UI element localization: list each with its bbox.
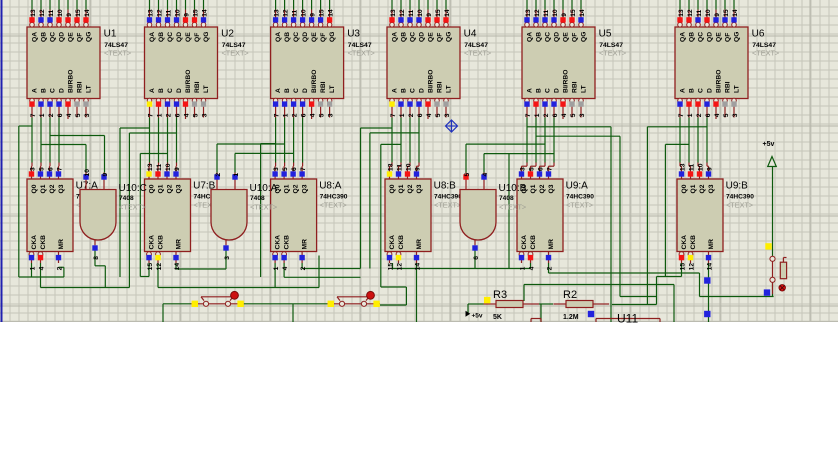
svg-text:5: 5 <box>570 113 577 117</box>
svg-text:6: 6 <box>47 167 54 171</box>
svg-text:C: C <box>697 88 704 93</box>
svg-text:7408: 7408 <box>499 195 514 202</box>
svg-text:QC: QC <box>293 32 300 42</box>
svg-text:14: 14 <box>201 9 208 17</box>
wire net Q1 digit 2 <box>158 118 160 163</box>
wire segment display bus U4 pin <box>400 0 402 10</box>
svg-text:3: 3 <box>84 113 91 117</box>
wire segment display bus U6 pin <box>715 0 717 10</box>
wire +5v to R3 <box>468 303 484 305</box>
svg-text:10: 10 <box>697 163 704 171</box>
svg-text:9: 9 <box>561 13 568 17</box>
svg-text:B: B <box>535 88 542 93</box>
svg-text:U8:A: U8:A <box>319 181 342 192</box>
svg-text:14: 14 <box>414 263 421 271</box>
wire segment display bus U1 pin <box>58 0 60 10</box>
node button3 bottom state square (blue) <box>764 289 770 295</box>
svg-text:QB: QB <box>284 32 291 42</box>
svg-text:U6: U6 <box>752 28 765 39</box>
wire net Q0 digit 4 <box>391 118 393 163</box>
svg-text:QD: QD <box>418 32 425 42</box>
svg-text:2: 2 <box>56 266 63 270</box>
wire R3-R2 link <box>539 303 553 305</box>
svg-text:BI/RBO: BI/RBO <box>311 70 318 93</box>
svg-text:QG: QG <box>580 32 587 42</box>
svg-text:12: 12 <box>156 9 163 17</box>
svg-text:1: 1 <box>534 113 541 117</box>
svg-text:3: 3 <box>579 113 586 117</box>
svg-text:4: 4 <box>282 266 289 270</box>
svg-text:BI/RBO: BI/RBO <box>185 70 192 93</box>
wire segment display bus U4 pin <box>436 0 438 10</box>
svg-text:11: 11 <box>408 9 415 16</box>
svg-text:<TEXT>: <TEXT> <box>250 203 277 212</box>
wire MR U8:B down <box>416 269 418 323</box>
svg-text:9: 9 <box>310 13 317 17</box>
wire bottom net digit4 <box>393 268 531 270</box>
svg-text:LT: LT <box>733 84 740 93</box>
svg-text:QC: QC <box>544 32 551 42</box>
svg-text:13: 13 <box>30 9 37 17</box>
svg-text:10: 10 <box>301 9 308 17</box>
svg-text:D: D <box>58 88 65 93</box>
svg-text:LT: LT <box>85 84 92 93</box>
svg-text:QD: QD <box>302 32 309 42</box>
wire net Q1 digit 6 <box>688 118 690 163</box>
svg-text:3: 3 <box>444 113 451 117</box>
svg-text:11: 11 <box>396 164 403 171</box>
wire segment display bus U2 pin <box>203 0 205 10</box>
svg-text:RBI: RBI <box>724 81 731 93</box>
wire segment display bus U2 pin <box>158 0 160 10</box>
svg-text:10: 10 <box>705 9 712 17</box>
svg-text:QG: QG <box>445 32 452 42</box>
svg-text:10: 10 <box>165 163 172 171</box>
svg-text:LT: LT <box>445 84 452 93</box>
svg-text:<TEXT>: <TEXT> <box>348 49 375 58</box>
svg-text:Q1: Q1 <box>40 184 47 193</box>
wire to button1 left <box>163 303 191 305</box>
wire button bottom <box>772 282 774 297</box>
svg-text:QA: QA <box>679 32 686 42</box>
wire branch digit3 <box>260 144 262 277</box>
wire segment display bus U3 pin <box>320 0 322 10</box>
wire U10:C input 2 net <box>104 136 106 173</box>
74HC390 counter U9:B <box>677 163 754 270</box>
schematic background <box>0 0 838 322</box>
wire branch digit5 down <box>508 154 510 269</box>
wire segment display bus U3 pin <box>293 0 295 10</box>
svg-text:2: 2 <box>165 113 172 117</box>
74HC390 counter U8:A <box>271 166 348 270</box>
wire segment display bus U3 pin <box>302 0 304 10</box>
svg-text:15: 15 <box>723 9 730 17</box>
svg-text:1: 1 <box>39 113 46 117</box>
node MR U9:B lower state square (blue) <box>704 311 710 317</box>
wire U10:C input 1 net <box>85 145 87 173</box>
svg-text:<TEXT>: <TEXT> <box>599 49 626 58</box>
wire MR U8:A net <box>301 263 303 269</box>
svg-text:5: 5 <box>192 113 199 117</box>
svg-text:<TEXT>: <TEXT> <box>222 49 249 58</box>
svg-text:13: 13 <box>387 163 394 171</box>
svg-text:5: 5 <box>75 113 82 117</box>
wire R3 up branch <box>523 285 525 302</box>
svg-text:QF: QF <box>724 33 731 42</box>
svg-text:12: 12 <box>283 9 290 17</box>
svg-text:D: D <box>706 88 713 93</box>
node button3 top state square (yellow) <box>765 243 771 249</box>
svg-text:B: B <box>400 88 407 93</box>
wire net Q0 digit 6 <box>679 118 681 163</box>
svg-text:U1: U1 <box>104 28 117 39</box>
svg-text:QE: QE <box>562 32 569 42</box>
wire U10:A input 2 net <box>234 153 236 172</box>
svg-text:14: 14 <box>174 263 181 271</box>
svg-text:4: 4 <box>310 113 317 117</box>
wire net Q3 digit 2 <box>176 118 178 163</box>
svg-text:MR: MR <box>175 239 182 250</box>
svg-text:CKA: CKA <box>521 235 528 250</box>
svg-text:Q0: Q0 <box>148 184 155 193</box>
svg-text:6: 6 <box>291 167 298 171</box>
svg-text:Q0: Q0 <box>389 184 396 193</box>
wire segment display bus U4 pin <box>409 0 411 10</box>
svg-text:1: 1 <box>687 113 694 117</box>
wire segment display bus U6 pin <box>688 0 690 10</box>
svg-text:QA: QA <box>391 32 398 42</box>
svg-text:15: 15 <box>147 263 154 271</box>
wire net Q1 digit 4 <box>400 118 402 163</box>
svg-text:6: 6 <box>174 113 181 117</box>
svg-text:6: 6 <box>301 113 308 117</box>
svg-text:<TEXT>: <TEXT> <box>499 203 526 212</box>
wire segment display bus U3 pin <box>275 0 277 10</box>
node MR U9:B wire state square (blue) <box>704 277 710 283</box>
svg-text:15: 15 <box>435 9 442 17</box>
wire U10:A input 1 net <box>216 144 218 173</box>
svg-text:Q2: Q2 <box>49 184 56 193</box>
wire segment display bus U1 pin <box>49 0 51 10</box>
wire segment display bus U4 pin <box>427 0 429 10</box>
wire U6 pin6 branch <box>647 126 707 128</box>
wire segment display bus U3 pin <box>311 0 313 10</box>
wire segment display bus U1 pin <box>76 0 78 10</box>
svg-text:15: 15 <box>319 9 326 17</box>
svg-text:15: 15 <box>387 263 394 271</box>
wire segment display bus U1 pin <box>31 0 33 10</box>
svg-text:QD: QD <box>58 32 65 42</box>
svg-text:7: 7 <box>56 167 63 171</box>
svg-text:2: 2 <box>215 173 222 177</box>
svg-text:Q2: Q2 <box>539 184 546 193</box>
svg-text:6: 6 <box>537 167 544 171</box>
svg-text:3: 3 <box>328 113 335 117</box>
wire branch digit1 <box>18 126 20 277</box>
svg-text:B: B <box>158 88 165 93</box>
svg-text:Q2: Q2 <box>407 184 414 193</box>
svg-text:Q3: Q3 <box>58 184 65 193</box>
svg-text:LT: LT <box>203 84 210 93</box>
svg-text:9: 9 <box>66 13 73 17</box>
svg-text:<TEXT>: <TEXT> <box>726 201 753 210</box>
svg-text:QF: QF <box>76 33 83 42</box>
wire CKA U9:B <box>657 276 682 278</box>
wire segment display bus U1 pin <box>40 0 42 10</box>
svg-text:QG: QG <box>203 32 210 42</box>
wire segment display bus U2 pin <box>149 0 151 10</box>
svg-text:9: 9 <box>426 13 433 17</box>
svg-text:12: 12 <box>396 263 403 271</box>
resistor R3 <box>484 289 540 321</box>
wire segment display bus U2 pin <box>194 0 196 10</box>
svg-text:A: A <box>149 88 156 93</box>
svg-text:9: 9 <box>414 167 421 171</box>
wire U5 pin1 branch bus <box>536 135 620 137</box>
svg-text:5: 5 <box>528 167 535 171</box>
svg-text:6: 6 <box>473 256 480 260</box>
svg-text:CKB: CKB <box>157 235 164 250</box>
wire U5 pin7 branch bus <box>527 126 611 128</box>
svg-text:U9:B: U9:B <box>726 181 749 192</box>
svg-text:12: 12 <box>399 9 406 17</box>
svg-text:QC: QC <box>49 32 56 42</box>
wire segment display bus U5 pin <box>544 0 546 10</box>
svg-text:Q0: Q0 <box>681 184 688 193</box>
wire net Q3 digit 4 <box>418 118 420 163</box>
svg-text:13: 13 <box>147 9 154 17</box>
wire staircase digit4 a <box>360 128 362 269</box>
wire CKB U8:A cascade <box>283 263 285 277</box>
wire segment display bus U2 pin <box>167 0 169 10</box>
svg-text:A: A <box>275 88 282 93</box>
svg-text:<TEXT>: <TEXT> <box>752 49 779 58</box>
wire staircase digit2 a <box>119 128 121 277</box>
wire segment display bus U5 pin <box>580 0 582 10</box>
wire net Q2 digit 3 <box>293 118 295 163</box>
svg-text:LT: LT <box>329 84 336 93</box>
svg-text:QF: QF <box>194 33 201 42</box>
svg-text:2: 2 <box>546 266 553 270</box>
svg-text:Q3: Q3 <box>548 184 555 193</box>
svg-text:R2: R2 <box>563 289 577 301</box>
svg-text:MR: MR <box>416 239 423 250</box>
svg-text:12: 12 <box>534 9 541 17</box>
svg-text:6: 6 <box>705 113 712 117</box>
push button 1 <box>191 291 244 307</box>
svg-text:10: 10 <box>57 9 64 17</box>
svg-text:10: 10 <box>405 163 412 171</box>
svg-text:11: 11 <box>696 9 703 16</box>
svg-text:7: 7 <box>678 113 685 117</box>
wire staircase digit2 c <box>139 154 141 277</box>
svg-text:74HC390: 74HC390 <box>726 194 754 201</box>
74LS47 decoder U5 <box>522 9 626 119</box>
svg-text:C: C <box>544 88 551 93</box>
svg-text:<TEXT>: <TEXT> <box>434 201 461 210</box>
svg-text:74HC390: 74HC390 <box>320 194 348 201</box>
svg-text:11: 11 <box>688 164 695 171</box>
74LS47 decoder U2 <box>145 9 249 119</box>
wire segment display bus U3 pin <box>284 0 286 10</box>
wire net Q1 digit 1 <box>40 118 42 163</box>
svg-text:7: 7 <box>300 167 307 171</box>
svg-text:Q3: Q3 <box>708 184 715 193</box>
svg-text:D: D <box>418 88 425 93</box>
wire segment display bus U5 pin <box>571 0 573 10</box>
74HC390 counter U9:A <box>517 166 594 270</box>
svg-text:QA: QA <box>31 32 38 42</box>
svg-text:9: 9 <box>714 13 721 17</box>
wire net Q0 digit 5 <box>526 118 528 163</box>
IC U11 (cut off at bottom) <box>596 312 660 326</box>
svg-text:11: 11 <box>543 9 550 16</box>
wire segment display bus U1 pin <box>85 0 87 10</box>
svg-text:11: 11 <box>156 164 163 171</box>
svg-text:14: 14 <box>732 9 739 17</box>
74LS47 decoder U4 <box>387 9 491 119</box>
svg-text:14: 14 <box>579 9 586 17</box>
svg-text:6: 6 <box>552 113 559 117</box>
wire net Q3 digit 5 <box>553 118 555 163</box>
svg-text:QB: QB <box>400 32 407 42</box>
svg-text:Q1: Q1 <box>530 184 537 193</box>
svg-text:QC: QC <box>409 32 416 42</box>
svg-text:C: C <box>49 88 56 93</box>
svg-text:A: A <box>31 88 38 93</box>
svg-text:2: 2 <box>300 266 307 270</box>
svg-text:Q3: Q3 <box>301 184 308 193</box>
wire net Q1 digit 3 <box>284 118 286 163</box>
svg-text:14: 14 <box>84 9 91 17</box>
svg-text:QE: QE <box>427 32 434 42</box>
svg-text:13: 13 <box>147 163 154 171</box>
svg-text:1: 1 <box>29 266 36 270</box>
wire staircase digit2 b <box>128 133 130 288</box>
svg-text:2: 2 <box>696 113 703 117</box>
svg-text:CKB: CKB <box>283 235 290 250</box>
svg-text:7: 7 <box>546 167 553 171</box>
svg-text:QA: QA <box>526 32 533 42</box>
svg-text:B: B <box>688 88 695 93</box>
svg-text:4: 4 <box>561 113 568 117</box>
svg-text:A: A <box>391 88 398 93</box>
svg-text:2: 2 <box>408 113 415 117</box>
7408 AND gate U10:C <box>80 169 147 260</box>
svg-text:<TEXT>: <TEXT> <box>320 201 347 210</box>
svg-text:U9:A: U9:A <box>566 181 589 192</box>
wire segment display bus U3 pin <box>329 0 331 10</box>
svg-text:CKA: CKA <box>31 235 38 250</box>
svg-text:8: 8 <box>93 256 100 260</box>
sheet border left edge <box>1 0 3 322</box>
svg-text:3: 3 <box>732 113 739 117</box>
origin marker (blue diamond) <box>446 120 458 132</box>
svg-text:C: C <box>293 88 300 93</box>
svg-text:U5: U5 <box>599 28 612 39</box>
wire net Q0 digit 1 <box>31 118 33 163</box>
svg-text:9: 9 <box>706 167 713 171</box>
7408 AND gate U10:B <box>460 173 527 260</box>
svg-text:Q2: Q2 <box>699 184 706 193</box>
wire segment display bus U4 pin <box>391 0 393 10</box>
wire segment display bus U6 pin <box>679 0 681 10</box>
svg-text:QF: QF <box>320 33 327 42</box>
svg-text:11: 11 <box>48 9 55 16</box>
svg-text:1: 1 <box>519 266 526 270</box>
svg-text:5: 5 <box>464 173 471 177</box>
svg-text:9: 9 <box>183 13 190 17</box>
wire segment display bus U2 pin <box>185 0 187 10</box>
svg-text:14: 14 <box>444 9 451 17</box>
wire net Q1 digit 5 <box>535 118 537 163</box>
svg-text:U11: U11 <box>617 312 638 326</box>
svg-text:QG: QG <box>85 32 92 42</box>
svg-text:RBI: RBI <box>436 81 443 93</box>
wire +5v to button <box>772 167 774 257</box>
svg-text:QE: QE <box>67 32 74 42</box>
svg-text:QG: QG <box>329 32 336 42</box>
wire CKA U7:A <box>19 276 64 278</box>
wire button2 right <box>380 304 406 306</box>
wire staircase digit4 c <box>380 144 382 287</box>
push button 3 (vertical) <box>770 256 787 294</box>
svg-text:QE: QE <box>185 32 192 42</box>
svg-text:U3: U3 <box>347 28 360 39</box>
svg-text:CKA: CKA <box>274 235 281 250</box>
74LS47 decoder U6 <box>675 9 779 119</box>
svg-text:6: 6 <box>417 113 424 117</box>
svg-text:QB: QB <box>688 32 695 42</box>
svg-text:Q1: Q1 <box>157 184 164 193</box>
74LS47 decoder U1 <box>27 9 131 119</box>
svg-text:QF: QF <box>571 33 578 42</box>
svg-text:3: 3 <box>201 113 208 117</box>
svg-text:12: 12 <box>688 263 695 271</box>
wire U10:C output net <box>94 251 96 266</box>
svg-text:C: C <box>167 88 174 93</box>
74HC390 counter U7:B <box>145 163 222 270</box>
svg-text:Q2: Q2 <box>166 184 173 193</box>
svg-text:13: 13 <box>274 9 281 17</box>
svg-text:D: D <box>176 88 183 93</box>
wire U10:B input 1 net <box>465 144 467 172</box>
svg-text:B: B <box>40 88 47 93</box>
wire MR U9:B down <box>708 263 710 322</box>
svg-text:CKA: CKA <box>148 235 155 250</box>
wire segment display bus U6 pin <box>697 0 699 10</box>
svg-text:10: 10 <box>174 9 181 17</box>
svg-text:Q1: Q1 <box>283 184 290 193</box>
svg-text:CKA: CKA <box>681 235 688 250</box>
74LS47 decoder U3 <box>271 9 375 119</box>
svg-text:CKB: CKB <box>40 235 47 250</box>
wire segment display bus U4 pin <box>418 0 420 10</box>
svg-text:CKB: CKB <box>530 235 537 250</box>
bottom boundary line <box>0 321 838 322</box>
svg-text:15: 15 <box>75 9 82 17</box>
wire segment display bus U6 pin <box>733 0 735 10</box>
wire U10:B input 2 net <box>483 154 485 173</box>
svg-text:7408: 7408 <box>250 195 265 202</box>
svg-text:4: 4 <box>66 113 73 117</box>
svg-text:+5v: +5v <box>763 141 775 148</box>
svg-text:6: 6 <box>57 113 64 117</box>
svg-text:D: D <box>302 88 309 93</box>
svg-text:1: 1 <box>283 113 290 117</box>
wire net Q2 digit 2 <box>167 118 169 163</box>
wire segment display bus U2 pin <box>176 0 178 10</box>
